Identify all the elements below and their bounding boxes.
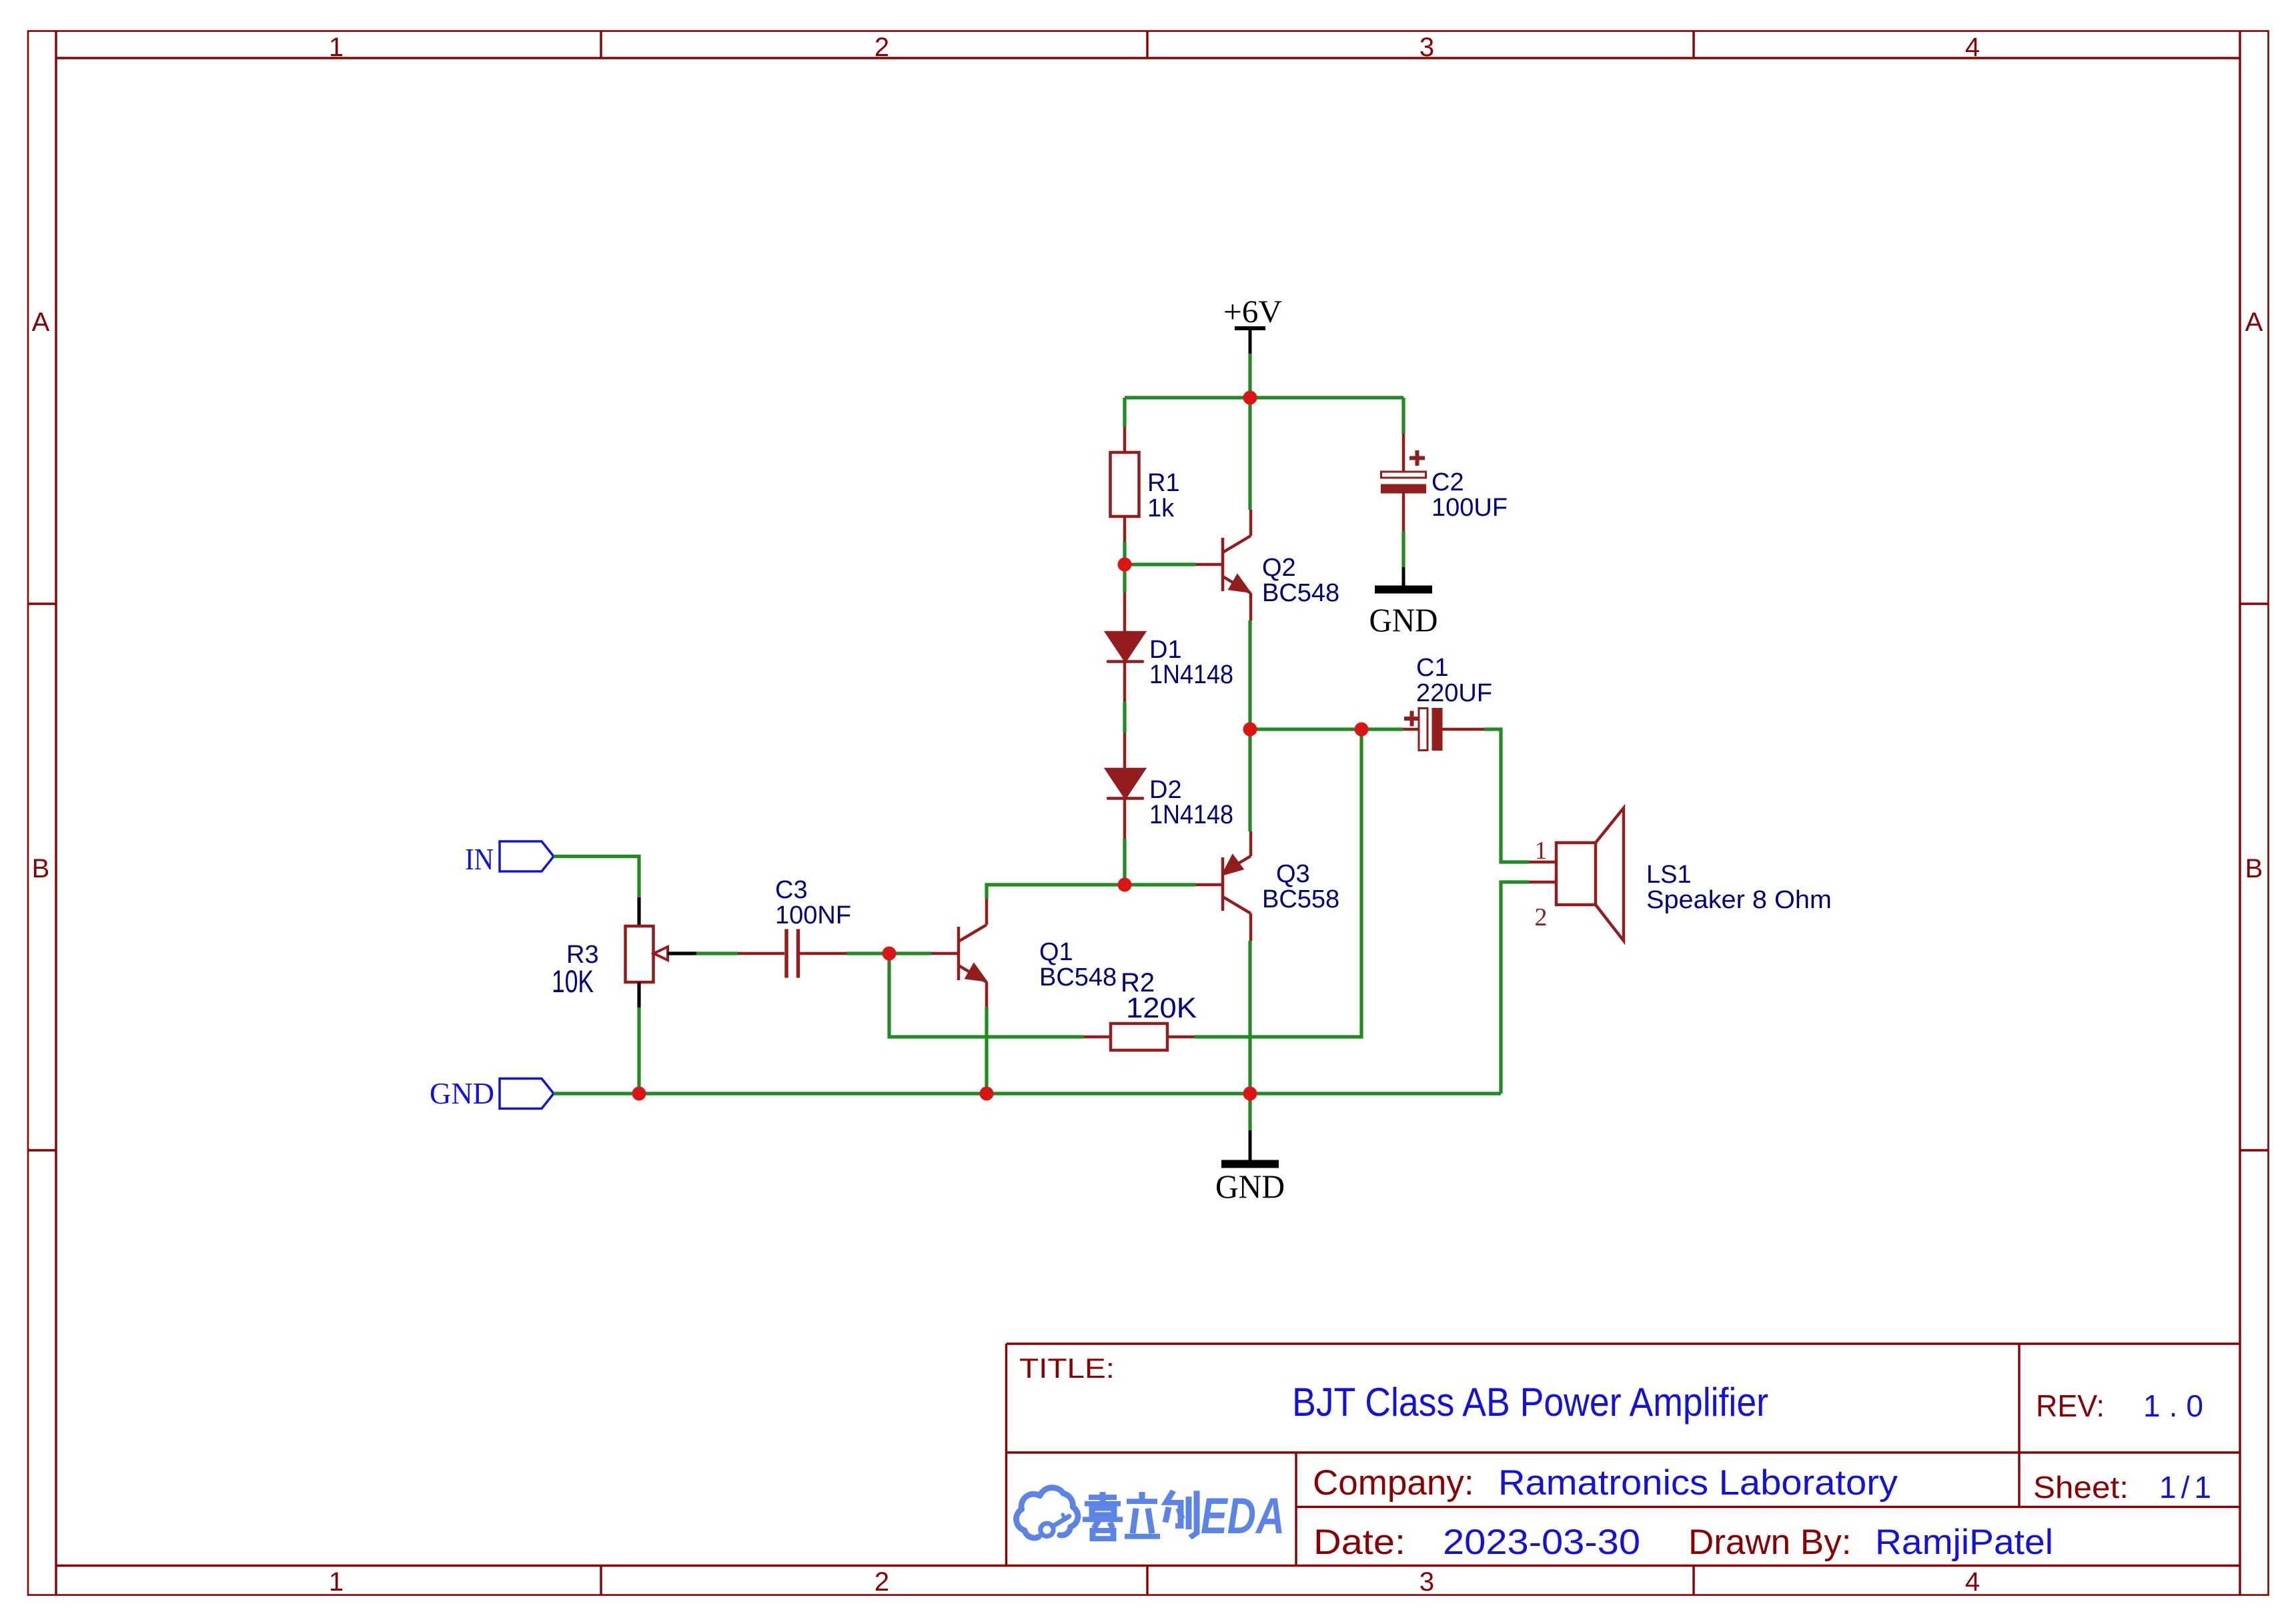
logo key circle bbox=[1041, 1523, 1053, 1536]
power flag +6V bbox=[1235, 328, 1265, 354]
svg-text:A: A bbox=[2245, 308, 2263, 337]
svg-text:2: 2 bbox=[1535, 903, 1548, 931]
label D1 1N4148 bbox=[1149, 636, 1233, 689]
junction node R1/D1/Q2 base bbox=[1118, 558, 1132, 572]
svg-text:3: 3 bbox=[1419, 33, 1434, 62]
svg-text:IN: IN bbox=[465, 842, 494, 876]
transistor Q1 bbox=[931, 899, 987, 1007]
title block REV cell divider bbox=[2018, 1344, 2020, 1507]
wire Q3 emitter bbox=[1248, 729, 1251, 831]
svg-text:Sheet:: Sheet: bbox=[2033, 1470, 2129, 1505]
label C3 100NF bbox=[775, 876, 851, 929]
wire R1 to D1 bbox=[1123, 542, 1126, 592]
border frame inner horizontals bbox=[56, 57, 2240, 59]
svg-text:Date:: Date: bbox=[1313, 1523, 1405, 1562]
svg-text:Ramatronics Laboratory: Ramatronics Laboratory bbox=[1498, 1463, 1898, 1503]
column tick 2|3 bottom bbox=[1146, 1566, 1148, 1595]
svg-text:R1: R1 bbox=[1147, 469, 1180, 497]
transistor Q3 bbox=[1196, 831, 1251, 941]
junction node power bbox=[1243, 391, 1257, 405]
title block row divider 1 bbox=[1007, 1451, 2241, 1453]
loudspeaker LS1 bbox=[1529, 808, 1624, 941]
wire IN to R3 bbox=[554, 857, 639, 898]
logo key stem bbox=[1053, 1517, 1069, 1527]
svg-text:B: B bbox=[32, 854, 50, 883]
row tick A|B right bbox=[2240, 602, 2268, 604]
title block top edge bbox=[1007, 1342, 2241, 1344]
ground symbol bottom bbox=[1221, 1130, 1279, 1164]
wire Q2 collector bbox=[1248, 398, 1251, 510]
wire D2 to node B2 bbox=[1123, 839, 1126, 885]
wire power stem bbox=[1248, 354, 1251, 398]
svg-text:1N4148: 1N4148 bbox=[1149, 660, 1233, 689]
diode D2 bbox=[1107, 733, 1144, 839]
svg-text:C1: C1 bbox=[1416, 654, 1449, 682]
column tick 3|4 bottom bbox=[1692, 1566, 1694, 1595]
svg-text:100NF: 100NF bbox=[775, 901, 851, 929]
wire Q2 emitter to node bbox=[1248, 621, 1251, 729]
label Q2 BC548 bbox=[1262, 554, 1339, 607]
netport GND bbox=[430, 1076, 554, 1110]
svg-text:REV:: REV: bbox=[2036, 1388, 2105, 1423]
junction node rail R3 bbox=[632, 1087, 646, 1101]
wire Q2 base bbox=[1125, 562, 1196, 566]
svg-text:GND: GND bbox=[1369, 601, 1438, 639]
svg-text:1: 1 bbox=[329, 1567, 344, 1597]
svg-text:220UF: 220UF bbox=[1416, 679, 1492, 707]
svg-text:Q1: Q1 bbox=[1039, 938, 1073, 966]
title block logo cell divider bbox=[1295, 1453, 1297, 1566]
wire R1 top bbox=[1123, 398, 1126, 427]
svg-text:3: 3 bbox=[1419, 1567, 1434, 1597]
column tick 1|2 bottom bbox=[600, 1566, 602, 1595]
svg-text:RamjiPatel: RamjiPatel bbox=[1875, 1523, 2053, 1562]
svg-text:1k: 1k bbox=[1147, 494, 1175, 522]
svg-text:Company:: Company: bbox=[1313, 1463, 1474, 1503]
svg-text:Q3: Q3 bbox=[1276, 860, 1310, 888]
column tick 1|2 top bbox=[600, 31, 602, 59]
wire speaker pin 2 to ground rail bbox=[1501, 882, 1529, 1094]
label D2 1N4148 bbox=[1149, 776, 1233, 829]
title block row divider 2 bbox=[1296, 1506, 2240, 1508]
svg-text:TITLE:: TITLE: bbox=[1019, 1352, 1115, 1384]
svg-text:2: 2 bbox=[875, 1567, 889, 1597]
label C1 220UF bbox=[1416, 654, 1492, 707]
wire top rail bbox=[1125, 396, 1403, 399]
wire R2 to C1 node riser bbox=[1194, 729, 1361, 1037]
svg-text:Speaker 8 Ohm: Speaker 8 Ohm bbox=[1646, 886, 1832, 914]
junction node C1 left bbox=[1355, 723, 1369, 737]
resistor R1 bbox=[1111, 427, 1139, 542]
wire C3 to Q1 base node bbox=[846, 951, 931, 955]
border frame inner verticals bbox=[55, 31, 57, 1595]
label C2 100UF bbox=[1431, 468, 1508, 522]
row tick B|C right bbox=[2240, 1149, 2268, 1151]
potentiometer R3 bbox=[626, 897, 697, 1007]
junction node D2/Q3 base bbox=[1118, 878, 1132, 892]
wire C1 to speaker pin 1 bbox=[1484, 729, 1529, 862]
netport IN bbox=[465, 841, 554, 876]
svg-text:Drawn By:: Drawn By: bbox=[1688, 1523, 1851, 1562]
wire R3 bottom to rail bbox=[637, 1007, 640, 1094]
svg-text:1N4148: 1N4148 bbox=[1149, 800, 1233, 829]
svg-text:4: 4 bbox=[1965, 1567, 1980, 1597]
svg-text:B: B bbox=[2245, 854, 2263, 883]
svg-text:EDA: EDA bbox=[1201, 1488, 1285, 1545]
junction node Q1 base bbox=[883, 947, 897, 961]
logo CJK char jia bbox=[1100, 1492, 1106, 1503]
Q1 emitter arrow bbox=[966, 964, 986, 981]
C1 plus sign bbox=[1404, 717, 1419, 721]
row tick B|C left bbox=[28, 1149, 56, 1151]
wire D1 to D2 bbox=[1123, 702, 1126, 733]
wire R3 wiper to C3 bbox=[696, 951, 738, 955]
resistor R2 bbox=[1084, 1024, 1194, 1050]
label Q3 BC558 bbox=[1262, 860, 1339, 913]
svg-text:1: 1 bbox=[1535, 837, 1548, 865]
Q3 emitter arrow bbox=[1223, 856, 1242, 874]
logo cloud bbox=[1016, 1488, 1077, 1538]
diode D1 bbox=[1107, 592, 1144, 702]
wire C2 bottom bbox=[1401, 531, 1405, 567]
wire output node to C1 bbox=[1250, 727, 1403, 731]
column tick 3|4 top bbox=[1692, 31, 1694, 59]
svg-text:GND: GND bbox=[1215, 1168, 1285, 1205]
svg-text:120K: 120K bbox=[1126, 992, 1197, 1024]
label R2 120K bbox=[1121, 968, 1197, 1024]
label R3 10K bbox=[552, 941, 599, 999]
Q2 emitter arrow bbox=[1229, 575, 1249, 592]
row tick A|B left bbox=[28, 602, 56, 604]
svg-text:10K: 10K bbox=[552, 963, 594, 999]
svg-text:BC548: BC548 bbox=[1262, 579, 1339, 607]
svg-text:+6V: +6V bbox=[1223, 294, 1282, 330]
logo CJK char li bbox=[1139, 1492, 1145, 1500]
C2 plus sign bbox=[1409, 456, 1425, 460]
wire C2 top bbox=[1401, 398, 1405, 434]
junction node rail center bbox=[1243, 1087, 1257, 1101]
svg-text:Q2: Q2 bbox=[1262, 554, 1296, 582]
junction node rail Q1 emitter bbox=[980, 1087, 994, 1101]
wire Q3 base bbox=[1125, 883, 1196, 886]
transistor Q2 bbox=[1196, 510, 1251, 621]
svg-text:2: 2 bbox=[875, 33, 889, 62]
svg-text:BC548: BC548 bbox=[1039, 963, 1117, 991]
svg-text:GND: GND bbox=[430, 1076, 494, 1110]
svg-text:BJT Class AB Power Amplifier: BJT Class AB Power Amplifier bbox=[1292, 1380, 1768, 1425]
svg-text:4: 4 bbox=[1965, 33, 1980, 62]
wire Q1 collector up to node B2 wire bbox=[987, 885, 1125, 899]
svg-text:BC558: BC558 bbox=[1262, 885, 1339, 913]
svg-text:2023-03-30: 2023-03-30 bbox=[1443, 1523, 1640, 1562]
title block left edge bbox=[1005, 1344, 1007, 1566]
svg-text:LS1: LS1 bbox=[1646, 861, 1692, 889]
ground under C2 bbox=[1375, 567, 1432, 590]
svg-text:100UF: 100UF bbox=[1431, 494, 1508, 522]
svg-text:C2: C2 bbox=[1431, 468, 1464, 496]
label LS1 Speaker 8 Ohm bbox=[1646, 861, 1832, 914]
capacitor C1 bbox=[1403, 709, 1484, 751]
wire to ground symbol bbox=[1248, 1094, 1251, 1130]
junction node output bbox=[1243, 723, 1257, 737]
column tick 2|3 top bbox=[1146, 31, 1148, 59]
wire Q1 emitter down to rail bbox=[985, 1007, 988, 1094]
wire ground rail bbox=[554, 1092, 1501, 1095]
label R1 1k bbox=[1147, 469, 1180, 522]
capacitor C2 bbox=[1381, 434, 1426, 531]
svg-text:1.0: 1.0 bbox=[2143, 1388, 2203, 1423]
label Q1 BC548 bbox=[1039, 938, 1117, 991]
svg-text:A: A bbox=[32, 308, 50, 337]
wire Q1 base node drop bbox=[889, 953, 1084, 1037]
logo CJK char chuang bbox=[1166, 1491, 1181, 1526]
svg-text:C3: C3 bbox=[775, 876, 808, 904]
wire Q3 collector down bbox=[1248, 941, 1251, 1094]
svg-text:1/1: 1/1 bbox=[2159, 1470, 2211, 1505]
capacitor C3 bbox=[738, 929, 846, 978]
svg-text:1: 1 bbox=[329, 33, 344, 62]
